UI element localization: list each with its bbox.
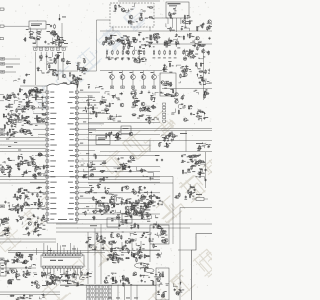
left bus-area parts <box>9 129 33 136</box>
wire AFT rail <box>55 70 78 72</box>
wire into CRT box <box>178 249 192 251</box>
IC N101 left pin 14 <box>46 160 49 162</box>
left margin tick 3 <box>0 38 3 40</box>
wire N101 right pin 15 lead <box>78 165 160 167</box>
front-end upper RC <box>37 55 60 74</box>
wire V163 collector up <box>132 71 134 76</box>
wire drop x95 <box>94 228 96 284</box>
wire V165 emitter drop <box>153 79 155 86</box>
IC N101 right pin 9 name <box>69 133 74 136</box>
wire N201 bottom pin 4 down <box>53 268 55 277</box>
delay line DL101 <box>96 136 110 145</box>
band row right extras <box>183 49 210 61</box>
resistor R104 <box>36 37 41 39</box>
band resistor row left R3 <box>117 50 119 55</box>
wire N101 right pin 4 lead <box>78 107 98 109</box>
IC N101 right pin 7 <box>75 123 78 125</box>
wire N201 bottom pin 1 down <box>43 268 45 271</box>
wire N201 top pin 12 up <box>80 250 82 254</box>
wire IF into IC <box>80 70 97 72</box>
IC N101 right pin 11 <box>75 144 78 146</box>
IC N101 right pin 7 name <box>68 122 74 125</box>
crystal box X301 <box>96 203 108 211</box>
wire N201 feed vertical <box>36 248 38 255</box>
wire grid drop 2 <box>124 285 126 300</box>
IC N201 body <box>41 255 84 267</box>
IC N101 left pin 12 <box>46 149 49 151</box>
N201 feed label 1 <box>62 245 66 248</box>
transistor V402 <box>148 201 152 205</box>
tuner bias parts <box>44 30 66 45</box>
video cluster upper <box>83 94 122 122</box>
band resistor row right R2 label <box>158 57 161 60</box>
wire long bus A <box>56 223 212 225</box>
IC N101 left pin 16 <box>46 171 49 173</box>
XP5 pin mark 2 <box>1 269 4 270</box>
left connector E <box>0 133 5 136</box>
SIF box parts <box>155 227 168 243</box>
bus net label 2 <box>90 224 97 227</box>
wire keyboard bus 3 <box>0 144 46 146</box>
band resistor row right R5 <box>174 50 176 55</box>
N201 label part2 <box>58 260 63 261</box>
wire N201 bottom pin 8 down <box>66 268 68 277</box>
wire N101 right pin 2 lead <box>78 96 95 98</box>
IC N101 left pin 10 <box>46 139 49 141</box>
IC N101 right pin 18 <box>75 181 78 183</box>
wire TU101 pin 1 drop <box>167 18 169 24</box>
xtal-reset cluster <box>0 153 49 179</box>
connector net labels <box>6 66 13 69</box>
wire front-end bus <box>20 85 56 87</box>
wire long rail 1 <box>88 128 212 130</box>
transistor V501 <box>36 285 40 289</box>
wire x88 vertical <box>88 96 90 180</box>
IC N101 right pin 21 <box>75 197 78 199</box>
IC N101 left pin 23 <box>46 208 49 210</box>
wire N201 top pin 3 up <box>50 248 52 254</box>
delay line DL201 oval <box>135 263 148 268</box>
IC N101 left pin 8 <box>46 128 49 130</box>
wire IF takeoff horizontal <box>97 19 111 21</box>
band resistor row left R4 <box>122 50 124 55</box>
DL101 label <box>98 137 107 140</box>
IC N201 bottom pin 10 <box>73 266 76 268</box>
wire N201 top pin 11 up <box>76 248 78 254</box>
band resistor row left R6 label <box>132 57 135 60</box>
Z101 area parts <box>23 28 41 44</box>
wire audio drop x122 <box>121 242 123 251</box>
bottom edge label 4 <box>134 297 138 300</box>
wire N201 top pin 4 up <box>53 250 55 254</box>
rail label right <box>180 132 187 135</box>
X201 label <box>123 127 129 130</box>
IC N101 left pin 21 name <box>50 197 56 200</box>
band under parts <box>105 89 164 101</box>
transistor V102 <box>52 72 56 76</box>
wire IF takeoff vertical <box>96 20 98 71</box>
wire V165 collector up <box>153 71 155 76</box>
R103 value <box>37 38 40 41</box>
mid below parts <box>85 233 106 251</box>
left connector J <box>0 258 4 261</box>
left margin tick 2 <box>0 25 4 27</box>
IF filter Z101 <box>29 21 46 29</box>
wire N101 left pin lead 23 <box>25 208 46 210</box>
band resistor row right R5 label <box>174 57 177 60</box>
IC N201 top pin 12 <box>79 254 82 256</box>
IC N201 bottom pin 9 <box>69 266 72 268</box>
IC N101 right pin 8 <box>75 128 78 130</box>
net label at N101 right pin 11 <box>80 142 83 145</box>
transistor V151 <box>129 15 133 19</box>
IC N101 left pin 4 name <box>50 107 54 110</box>
IC N201 bottom pin 12 <box>79 266 82 268</box>
band row left extras <box>106 47 146 64</box>
wire N101 left pin 4 lead <box>28 107 46 109</box>
wire bus below1 <box>0 238 56 240</box>
wire rail drop b <box>185 131 187 152</box>
top-right RC row <box>166 20 214 32</box>
resistor R106 <box>54 32 56 37</box>
wire N101 left pin lead 20 <box>28 192 46 194</box>
IC N101 right pin 16 <box>75 171 78 173</box>
IC right lower parts col <box>81 154 108 221</box>
IC N201 bottom pin 11 <box>76 266 79 268</box>
kb bus label 1 <box>6 138 9 141</box>
wire N201 top pin 2 up <box>46 245 48 253</box>
wire drop x101 <box>100 224 102 284</box>
IC N101 right pin 14 <box>75 160 78 162</box>
wire N101 left pin 1 lead <box>28 91 46 93</box>
wire N101 left pin 6 lead <box>38 118 46 120</box>
IC N101 right pin 6 name <box>69 117 75 120</box>
left connector pin A <box>1 58 5 61</box>
wire N201 bottom pin 7 down <box>63 268 65 275</box>
top-right cluster3 <box>164 33 211 51</box>
wire N201 top pin 1 up <box>43 243 45 254</box>
IC N101 right pin 22 name <box>69 202 74 205</box>
IC N101 left pin 7 <box>46 123 49 125</box>
transistor V104 <box>62 74 66 78</box>
IC N101 right pin 10 <box>75 139 78 141</box>
component K401 <box>196 198 204 201</box>
parts left of regulator <box>140 262 160 285</box>
rail parts mid <box>106 131 122 141</box>
tuner pin 5 <box>56 47 59 50</box>
wire long bus B <box>56 227 190 229</box>
IC left mid RC bank <box>3 113 47 129</box>
bottom mid cluster2 <box>104 272 137 287</box>
IC N101 right pin 12 name <box>69 149 73 152</box>
rail parts right <box>162 132 178 142</box>
wire bottom rail 1 <box>0 267 36 269</box>
wire audio rail 1 <box>8 250 160 252</box>
net label at N101 right pin 15 <box>92 163 95 166</box>
K401 label <box>196 193 202 196</box>
wire N101 right pin 13 lead <box>78 155 160 157</box>
band diode pack 5 <box>152 86 155 89</box>
wire N101 left pin lead 13 <box>35 155 46 157</box>
wire V164 emitter drop <box>143 79 145 86</box>
band resistor row left R7 label <box>137 57 140 60</box>
east top parts2 <box>159 138 171 148</box>
watermark stripe upper-left <box>31 25 126 112</box>
below-IC left cluster <box>0 212 47 237</box>
transistor V154 <box>133 39 137 43</box>
IC N101 left pin 2 name <box>50 96 54 99</box>
wire long rail 4 <box>100 151 212 153</box>
wire N201 bottom pin 10 down <box>73 268 75 273</box>
band resistor row left R7 <box>138 50 140 55</box>
IC N101 left pin 1 name <box>50 91 54 94</box>
wire N101 left pin 8 lead <box>33 128 46 130</box>
trap X201 <box>121 126 131 134</box>
band resistor row right R4 <box>169 50 171 55</box>
IC N201 bottom pin 3 <box>49 266 52 268</box>
wire conn C right <box>5 71 17 73</box>
net label at N101 right pin 17 <box>83 174 86 177</box>
transistor V401 <box>131 202 135 206</box>
wire N201 bottom pin 9 down <box>70 268 72 271</box>
bottom edge label 2 <box>116 297 120 300</box>
V501 label <box>42 284 46 287</box>
kb bus label 4 <box>18 149 21 152</box>
wire keyboard bus 1 <box>0 137 46 139</box>
wire AGC horizontal <box>37 46 62 48</box>
wire bottom rail ext <box>60 285 156 287</box>
transistor V103 <box>61 58 65 62</box>
IC N101 right pin 9 <box>75 133 78 135</box>
IC N101 left pin 4 <box>46 107 49 109</box>
wire tuner pin 2 drop <box>40 52 42 60</box>
wire N201 bottom pin 12 down <box>80 268 82 277</box>
capacitor C302 <box>161 159 163 160</box>
wire N101 left pin lead 18 <box>30 181 46 183</box>
wire drop x88 <box>87 232 89 284</box>
net label at N101 right pin 7 <box>83 121 86 124</box>
wire V163 emitter drop <box>132 79 134 86</box>
IF box parts <box>113 3 154 25</box>
IC N101 left pin 11 <box>46 144 49 146</box>
bottom mid cluster <box>107 248 162 264</box>
resistor R101 <box>29 32 34 34</box>
band row cap C164 <box>128 58 130 59</box>
wire V164 collector up <box>143 71 145 76</box>
wire audio drop x132 <box>131 238 133 251</box>
IC N201 top pin 7 <box>63 254 66 256</box>
wire N101 right pin 1 lead <box>78 91 100 93</box>
dashed shield box <box>110 3 154 27</box>
wire tuner pin 4 drop <box>51 52 53 57</box>
wire N101 right pin 24 lead <box>78 213 160 215</box>
watermark stripe middle <box>100 109 177 180</box>
IC N101 left pin 15 name <box>50 165 55 168</box>
mid-right parts y162 <box>137 167 154 181</box>
IC N101 right pin 23 <box>75 208 78 210</box>
wire right edge vertical <box>203 48 205 100</box>
IC N101 left pin 24 name <box>50 213 56 216</box>
wire N101 right pin 12 lead <box>78 149 95 151</box>
IC N101 left pin 19 name <box>50 186 54 189</box>
band row cap C161 <box>108 58 110 59</box>
IC N201 top pin 9 <box>69 254 72 256</box>
coil L201 oval <box>145 269 154 273</box>
video cluster right <box>131 96 159 125</box>
band resistor row right R1 <box>153 50 155 55</box>
IC N101 left pin 22 <box>46 202 49 204</box>
capacitor C304 <box>205 179 207 180</box>
transistor V153 <box>121 40 125 44</box>
wire grid drop 4 <box>136 285 138 300</box>
wire N201 bottom pin 3 down <box>50 268 52 275</box>
IC N101 left pin 5 name <box>50 112 56 115</box>
C101 label <box>47 23 51 26</box>
east top small parts <box>197 142 211 151</box>
tuner pin 1 <box>34 47 37 50</box>
wire N101 left pin 3 lead <box>38 102 46 104</box>
IC N101 left pin 9 name <box>50 133 54 136</box>
wire N101 right pin 18 lead <box>78 181 160 183</box>
wire N101 right pin 3 lead <box>78 102 106 104</box>
wire audio rail 2 <box>8 252 105 254</box>
wire N201 top pin 9 up <box>70 243 72 254</box>
band resistor row left R1 label <box>106 57 109 60</box>
band row cap C163 <box>121 58 123 59</box>
tuner pin 2 <box>39 47 42 50</box>
IC N201 top pin 10 <box>73 254 76 256</box>
wire margin to Z101 <box>4 25 29 27</box>
net label at N101 right pin 23 <box>86 205 89 208</box>
capacitor C301 <box>156 159 158 160</box>
resistor R118 <box>69 72 71 77</box>
IC N101 left pin 3 <box>46 102 49 104</box>
resistor R102 <box>36 32 41 34</box>
band diode pack 3 <box>131 86 134 89</box>
shield box right <box>160 73 176 96</box>
wire mid rail y179 <box>88 179 160 181</box>
IC N101 right pin 12 <box>75 149 78 151</box>
band switch transistor V164 <box>141 75 146 80</box>
wire audio out <box>140 249 160 251</box>
R101 value <box>30 33 33 36</box>
IC N101 left pin 21 <box>46 197 49 199</box>
band row cap C165 <box>134 58 136 59</box>
V163 label <box>130 71 133 74</box>
shield box parts <box>161 81 174 94</box>
V161 label <box>109 71 112 74</box>
X301 label <box>98 205 105 208</box>
band switch transistor V161 <box>110 75 115 80</box>
band resistor row right R3 <box>164 50 166 55</box>
resistor R105 <box>54 24 56 29</box>
band switch transistor V165 <box>152 75 157 80</box>
left margin parts col <box>0 94 13 123</box>
wire N201 bottom pin 2 down <box>46 268 48 273</box>
left margin tick 1 <box>0 8 4 10</box>
IC N101 right pin 8 name <box>70 128 76 131</box>
resistor R501 <box>41 271 43 276</box>
IC N101 right pin 17 name <box>70 175 75 178</box>
IC N101 right pin 22 <box>75 202 78 204</box>
IC N101 right pin 13 <box>75 155 78 157</box>
XP5 pin mark 3 <box>1 272 4 273</box>
capacitor C115 <box>57 56 59 57</box>
wire N101 right pin 20 lead <box>78 192 160 194</box>
band resistor row left R2 <box>111 50 113 55</box>
wire N101 left pin lead 15 <box>32 165 46 167</box>
wire mid rail y183 <box>88 182 173 184</box>
wire conn A right <box>5 58 21 60</box>
pin header column <box>163 103 166 122</box>
tuner pin 4 <box>51 47 54 50</box>
wire keyboard bus 5 <box>0 151 46 153</box>
wire band lower bus <box>162 88 212 90</box>
wire V161 emitter drop <box>111 79 113 86</box>
left of N201 parts <box>4 252 39 286</box>
front-end value labels <box>66 62 71 65</box>
band right lower parts <box>164 89 209 100</box>
IC N101 right pin 15 <box>75 165 78 167</box>
wire N201 top pin 5 up <box>56 243 58 254</box>
IC N101 right pin 4 <box>75 107 78 109</box>
connector pad grid XS1 <box>87 286 112 300</box>
wire tuner pin 3 drop <box>46 52 48 70</box>
wire N101 right pin 23 lead <box>78 208 100 210</box>
right of regulator parts <box>173 281 184 296</box>
top-right cluster2 <box>103 32 161 50</box>
scan noise speckle <box>1 0 213 300</box>
wire x205 vertical <box>205 152 207 188</box>
IC N201 top pin 1 <box>43 254 46 256</box>
wire long rail 2 <box>88 130 212 132</box>
left connector D <box>0 129 5 132</box>
IC N101 left pin 13 <box>46 155 49 157</box>
wire D101 top lead <box>59 14 61 17</box>
IC N101 right pin 11 name <box>69 144 75 147</box>
IC N101 right pin 13 name <box>70 154 76 157</box>
wire N201 top pin 6 up <box>60 245 62 253</box>
tuner pin 3 <box>45 47 48 50</box>
band resistor row right R2 <box>158 50 160 55</box>
bus net label 1 <box>58 218 67 221</box>
wire N101 right pin 10 lead <box>78 139 100 141</box>
D101 label <box>62 16 66 19</box>
front-end left small parts <box>14 73 30 84</box>
wire bus below2 <box>0 241 56 243</box>
V101 label <box>64 42 68 45</box>
wire N101 right pin 22 lead <box>78 202 150 204</box>
bottom edge label 1 <box>108 297 112 300</box>
IC N101 right pin 5 <box>75 112 78 114</box>
IC N101 right pin 3 name <box>68 101 73 104</box>
transistor V201 <box>120 103 124 107</box>
IC N101 left pin 17 <box>46 176 49 178</box>
IC N201 top pin 2 <box>46 254 49 256</box>
IC left upper RC bank <box>0 87 46 113</box>
ceramic filter Z401 <box>122 214 132 223</box>
east labels y143 <box>196 142 203 145</box>
IC N101 left pin 20 name <box>50 191 55 194</box>
wire IF box drop left <box>112 27 114 31</box>
wire y207 horizontal <box>180 207 212 209</box>
IC N101 right pin 5 name <box>70 112 74 115</box>
net label at N101 right pin 13 <box>86 152 89 155</box>
wire N101 left pin 5 lead <box>33 112 46 114</box>
band switch transistor V163 <box>131 75 136 80</box>
band resistor row left R6 <box>133 50 135 55</box>
IC N101 right pin 1 <box>75 91 78 93</box>
